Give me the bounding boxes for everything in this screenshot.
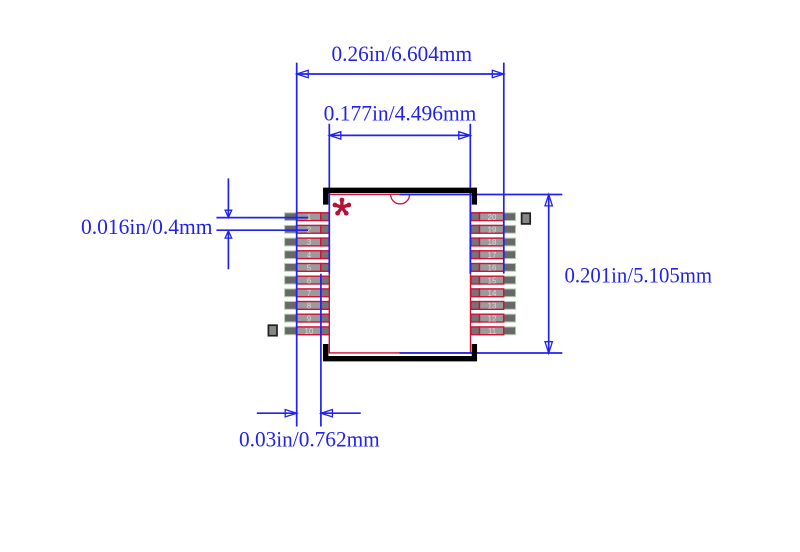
dimension line 0.177in body width <box>329 134 470 136</box>
svg-text:18: 18 <box>488 238 497 247</box>
lead inner segment of pin 9 <box>321 314 330 322</box>
IC body outline U1 <box>329 194 470 353</box>
lead inner segment of pin 11 <box>471 327 480 335</box>
pad of pin 9 (left copper pad) <box>285 314 330 322</box>
dimension line 0.03in lead length (left arrow) <box>257 412 297 414</box>
extension line: body right edge (x=470.3) <box>469 124 471 274</box>
dimension line 0.03in lead length (right arrow) <box>321 412 361 414</box>
lead inner segment of pin 10 <box>321 327 330 335</box>
lead foot of pin 19 <box>480 225 504 233</box>
extension line: body left edge (x=329.3) <box>328 124 330 274</box>
lead inner segment of pin 12 <box>471 314 480 322</box>
pad of pin 19 (right copper pad) <box>471 225 516 233</box>
pad of pin 17 (right copper pad) <box>471 251 516 259</box>
svg-text:17: 17 <box>488 251 497 260</box>
dimension line 0.201in body height <box>548 194 550 353</box>
lead inner segment of pin 17 <box>471 251 480 259</box>
lead inner segment of pin 16 <box>471 264 480 272</box>
lead foot of pin 17 <box>480 251 504 259</box>
svg-text:5: 5 <box>307 264 312 273</box>
extension line: lead tips right (x=503.8) <box>503 63 505 274</box>
lead foot of pin 12 <box>480 314 504 322</box>
svg-text:9: 9 <box>307 314 312 323</box>
svg-text:16: 16 <box>488 264 497 273</box>
lead inner segment of pin 15 <box>471 276 480 284</box>
svg-text:4: 4 <box>307 251 312 260</box>
svg-text:3: 3 <box>307 238 312 247</box>
svg-text:11: 11 <box>488 327 497 336</box>
lead foot of pin 13 <box>480 302 504 310</box>
pad of pin 18 (right copper pad) <box>471 238 516 246</box>
pad of pin 8 (left copper pad) <box>285 302 330 310</box>
lead inner segment of pin 18 <box>471 238 480 246</box>
lead inner segment of pin 14 <box>471 289 480 297</box>
lead inner segment of pin 6 <box>321 276 330 284</box>
lead foot of pin 9 <box>297 314 321 322</box>
lead inner segment of pin 2 <box>321 225 330 233</box>
pad of pin 5 (left copper pad) <box>285 264 330 272</box>
lead inner segment of pin 7 <box>321 289 330 297</box>
pad of pin 4 (left copper pad) <box>285 251 330 259</box>
lead foot of pin 11 <box>480 327 504 335</box>
svg-text:10: 10 <box>305 327 314 336</box>
pad of pin 16 (right copper pad) <box>471 264 516 272</box>
orientation marker square left (near pin 10) <box>268 325 277 336</box>
package top edge bar (black) <box>326 190 475 204</box>
svg-text:12: 12 <box>488 314 497 323</box>
svg-text:0.26in/6.604mm: 0.26in/6.604mm <box>332 41 473 66</box>
pad of pin 11 (right copper pad) <box>471 327 516 335</box>
svg-text:0.177in/4.496mm: 0.177in/4.496mm <box>324 100 477 125</box>
extension line: pin2 centerline <box>216 229 308 231</box>
pad of pin 2 (left copper pad) <box>285 225 330 233</box>
extension line: body top edge (right dim) <box>400 194 563 196</box>
extension line: pin1 centerline <box>216 217 308 219</box>
pad of pin 6 (left copper pad) <box>285 276 330 284</box>
lead foot of pin 16 <box>480 264 504 272</box>
lead foot of pin 14 <box>480 289 504 297</box>
lead foot of pin 3 <box>297 238 321 246</box>
pin-1 marker asterisk <box>333 198 352 216</box>
extension line: 0.03in right (x=320.9) <box>320 274 322 427</box>
lead inner segment of pin 20 <box>471 213 480 221</box>
lead foot of pin 18 <box>480 238 504 246</box>
lead foot of pin 7 <box>297 289 321 297</box>
svg-text:0.201in/5.105mm: 0.201in/5.105mm <box>565 262 713 287</box>
pad of pin 15 (right copper pad) <box>471 276 516 284</box>
lead inner segment of pin 5 <box>321 264 330 272</box>
dimension line 0.016in pitch (upper segment) <box>227 178 229 217</box>
extension line: lead tips left (x=296.7) <box>296 63 298 427</box>
lead inner segment of pin 1 <box>321 213 330 221</box>
pad of pin 13 (right copper pad) <box>471 302 516 310</box>
pad of pin 10 (left copper pad) <box>285 327 330 335</box>
svg-text:15: 15 <box>488 276 497 285</box>
lead foot of pin 8 <box>297 302 321 310</box>
lead foot of pin 2 <box>297 225 321 233</box>
svg-text:7: 7 <box>307 289 312 298</box>
svg-text:14: 14 <box>488 289 497 298</box>
lead foot of pin 10 <box>297 327 321 335</box>
pad of pin 7 (left copper pad) <box>285 289 330 297</box>
lead inner segment of pin 19 <box>471 225 480 233</box>
lead inner segment of pin 4 <box>321 251 330 259</box>
lead inner segment of pin 13 <box>471 302 480 310</box>
lead foot of pin 4 <box>297 251 321 259</box>
svg-text:0.016in/0.4mm: 0.016in/0.4mm <box>81 214 213 239</box>
pad of pin 1 (left copper pad) <box>285 213 330 221</box>
lead foot of pin 20 <box>480 213 504 221</box>
dimension line 0.26in overall width <box>297 73 504 75</box>
svg-text:13: 13 <box>488 302 497 311</box>
lead inner segment of pin 8 <box>321 302 330 310</box>
svg-text:0.03in/0.762mm: 0.03in/0.762mm <box>239 427 380 452</box>
lead foot of pin 15 <box>480 276 504 284</box>
svg-text:20: 20 <box>488 213 497 222</box>
lead foot of pin 6 <box>297 276 321 284</box>
lead foot of pin 5 <box>297 264 321 272</box>
pad of pin 12 (right copper pad) <box>471 314 516 322</box>
package bottom edge bar (black) <box>326 344 475 359</box>
extension line: body bottom edge (right dim) <box>400 352 563 354</box>
svg-text:19: 19 <box>488 226 497 235</box>
pad of pin 14 (right copper pad) <box>471 289 516 297</box>
pad of pin 20 (right copper pad) <box>471 213 516 221</box>
svg-text:6: 6 <box>307 276 312 285</box>
lead foot of pin 1 <box>297 213 321 221</box>
svg-text:8: 8 <box>307 302 312 311</box>
lead inner segment of pin 3 <box>321 238 330 246</box>
pad of pin 3 (left copper pad) <box>285 238 330 246</box>
pin-1 end notch (semicircle) <box>391 194 410 204</box>
orientation marker square right (near pin 20) <box>522 213 531 224</box>
dimension line 0.016in pitch (lower segment) <box>227 231 229 269</box>
